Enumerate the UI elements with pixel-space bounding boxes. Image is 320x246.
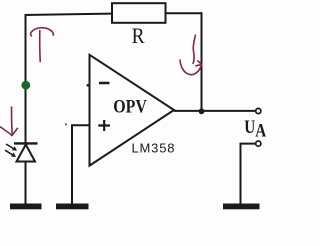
svg-text:R: R bbox=[132, 25, 145, 48]
resistor R bbox=[112, 3, 166, 23]
stray speck near plus-input corner bbox=[65, 124, 67, 126]
wire: photodiode to left ground bbox=[25, 162, 27, 205]
photodiode light arrow 2 bbox=[5, 150, 16, 157]
wire: + input horizontal bbox=[72, 124, 90, 126]
wire: resistor to top-right corner bbox=[166, 12, 203, 14]
wire: left vertical from top corner down to photodiode bbox=[25, 14, 27, 143]
red annotation arrow 3 (right, pointing down along feedback wire) bbox=[180, 35, 202, 74]
ground GND2 (middle) bbox=[56, 204, 89, 210]
svg-text:A: A bbox=[255, 120, 266, 141]
terminal circle top bbox=[256, 108, 261, 113]
photodiode light arrow 1 bbox=[6, 144, 17, 151]
svg-text:LM358: LM358 bbox=[132, 140, 176, 155]
red annotation arrow 1 (top-left, pointing up) bbox=[30, 28, 53, 62]
terminal circle bottom bbox=[256, 141, 261, 146]
wire: bottom terminal to right ground bbox=[241, 143, 256, 204]
photodiode D1: cathode bar bbox=[14, 142, 38, 144]
svg-text:U: U bbox=[244, 116, 255, 137]
wire: op-amp output to terminal bbox=[174, 110, 256, 112]
ground GND3 (right) bbox=[223, 204, 260, 210]
junction dot at output node bbox=[199, 108, 205, 114]
minus sign bbox=[99, 82, 110, 85]
plus sign bbox=[98, 120, 110, 131]
node: green junction dot on left wire bbox=[21, 81, 30, 90]
op-amp U1 triangle bbox=[90, 55, 175, 166]
wire: top-left horizontal from corner to resistor bbox=[25, 14, 113, 15]
red annotation arrow 2 (left, pointing down at photodiode) bbox=[1, 107, 18, 136]
wire: + input vertical down to middle ground bbox=[71, 124, 73, 204]
wire: right vertical feedback bbox=[201, 12, 203, 111]
svg-text:OPV: OPV bbox=[113, 95, 147, 117]
inverting input stub bbox=[87, 84, 90, 86]
ground GND1 (left) bbox=[10, 204, 42, 210]
photodiode D1: triangle bbox=[17, 145, 36, 162]
